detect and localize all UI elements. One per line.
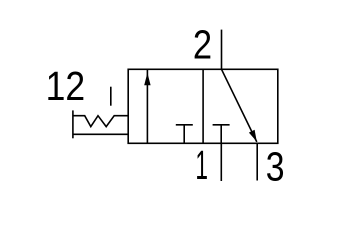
svg-text:12: 12 [46,63,86,109]
svg-text:3: 3 [266,143,285,189]
pilot label leader line [110,87,112,106]
svg-text:1: 1 [195,142,208,188]
left box flow path line (1 to 2) [146,70,148,144]
valve body (3/2-way valve, two position boxes) [128,69,278,143]
left box blocked port T [176,125,193,144]
left box flow arrowhead [144,73,150,85]
right box diagonal flow arrowhead [249,130,257,142]
position divider line [202,69,204,143]
return spring zigzag with top rail [73,116,128,127]
port 1 connection line [220,143,222,181]
svg-text:2: 2 [193,22,212,68]
right box blocked port T [213,125,230,144]
port 3 connection line [256,143,258,180]
right box diagonal flow line (2 to 3) [222,69,257,142]
port 2 connection line [221,30,223,70]
return spring end plate [72,110,74,138]
return spring bottom rail [73,133,128,135]
